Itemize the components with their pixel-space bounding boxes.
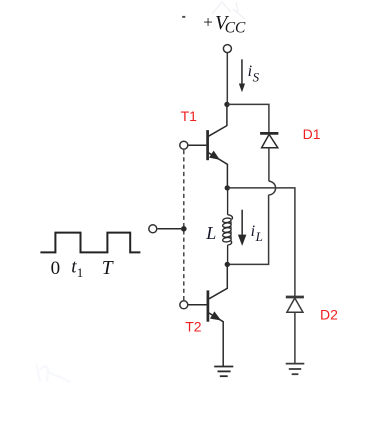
svg-text:D1: D1 <box>303 126 321 142</box>
svg-text:D2: D2 <box>320 306 338 322</box>
svg-text:S: S <box>253 69 260 84</box>
svg-text:L: L <box>255 229 263 244</box>
faint watermark bottom-left <box>36 364 70 382</box>
T1 collector <box>209 106 227 137</box>
junction node-A <box>225 185 230 190</box>
wire node-top to D1 <box>227 104 269 133</box>
junction node-B <box>225 262 230 267</box>
dashed base-drive line <box>183 150 185 300</box>
T1 base terminal <box>180 141 188 149</box>
wire D1 anode down to hop <box>268 148 270 181</box>
inductor L <box>222 189 232 263</box>
T2 base terminal <box>180 301 188 309</box>
diode D1 <box>260 133 278 147</box>
T2 base bar <box>207 290 210 321</box>
T1 emitter <box>209 153 228 188</box>
svg-text:i: i <box>248 63 252 80</box>
current arrow iL <box>238 210 247 246</box>
wire input to dashed line <box>158 228 182 230</box>
transistor T2 <box>180 264 228 366</box>
ground under T2 <box>214 367 233 377</box>
T2 emitter <box>209 313 223 366</box>
svg-text:T2: T2 <box>185 319 202 335</box>
T2 base wire <box>188 304 206 306</box>
junction node-top <box>224 102 229 107</box>
T1 emitter arrow <box>209 151 220 160</box>
stray mark artifact <box>182 16 185 18</box>
svg-text:0: 0 <box>51 258 61 279</box>
square wave input signal <box>40 233 140 253</box>
ground under D2 <box>286 364 305 375</box>
faint watermark strokes above Vcc label <box>212 2 245 19</box>
wire hop over node-A rail <box>269 181 276 195</box>
T2 collector <box>209 264 227 298</box>
svg-text:L: L <box>205 223 216 243</box>
wire hop to node-B rail <box>228 195 269 265</box>
terminal VCC <box>223 45 231 53</box>
svg-text:T1: T1 <box>181 108 198 124</box>
input terminal <box>149 225 157 233</box>
T2 emitter arrow <box>210 311 221 320</box>
svg-text:1: 1 <box>77 265 84 280</box>
svg-text:+: + <box>203 13 213 32</box>
transistor T1 <box>180 106 228 189</box>
wire node-A to right branch <box>227 188 295 297</box>
svg-text:i: i <box>251 223 255 240</box>
T1 base bar <box>206 130 209 160</box>
wire D2 anode to ground <box>294 312 296 363</box>
diode D2 <box>286 297 304 312</box>
current arrow iS <box>239 59 245 92</box>
T1 base wire <box>188 144 206 146</box>
svg-text:CC: CC <box>225 20 246 37</box>
junction on dashed line <box>181 226 187 232</box>
svg-text:T: T <box>102 258 114 279</box>
wire VCC to node-top <box>226 53 228 104</box>
